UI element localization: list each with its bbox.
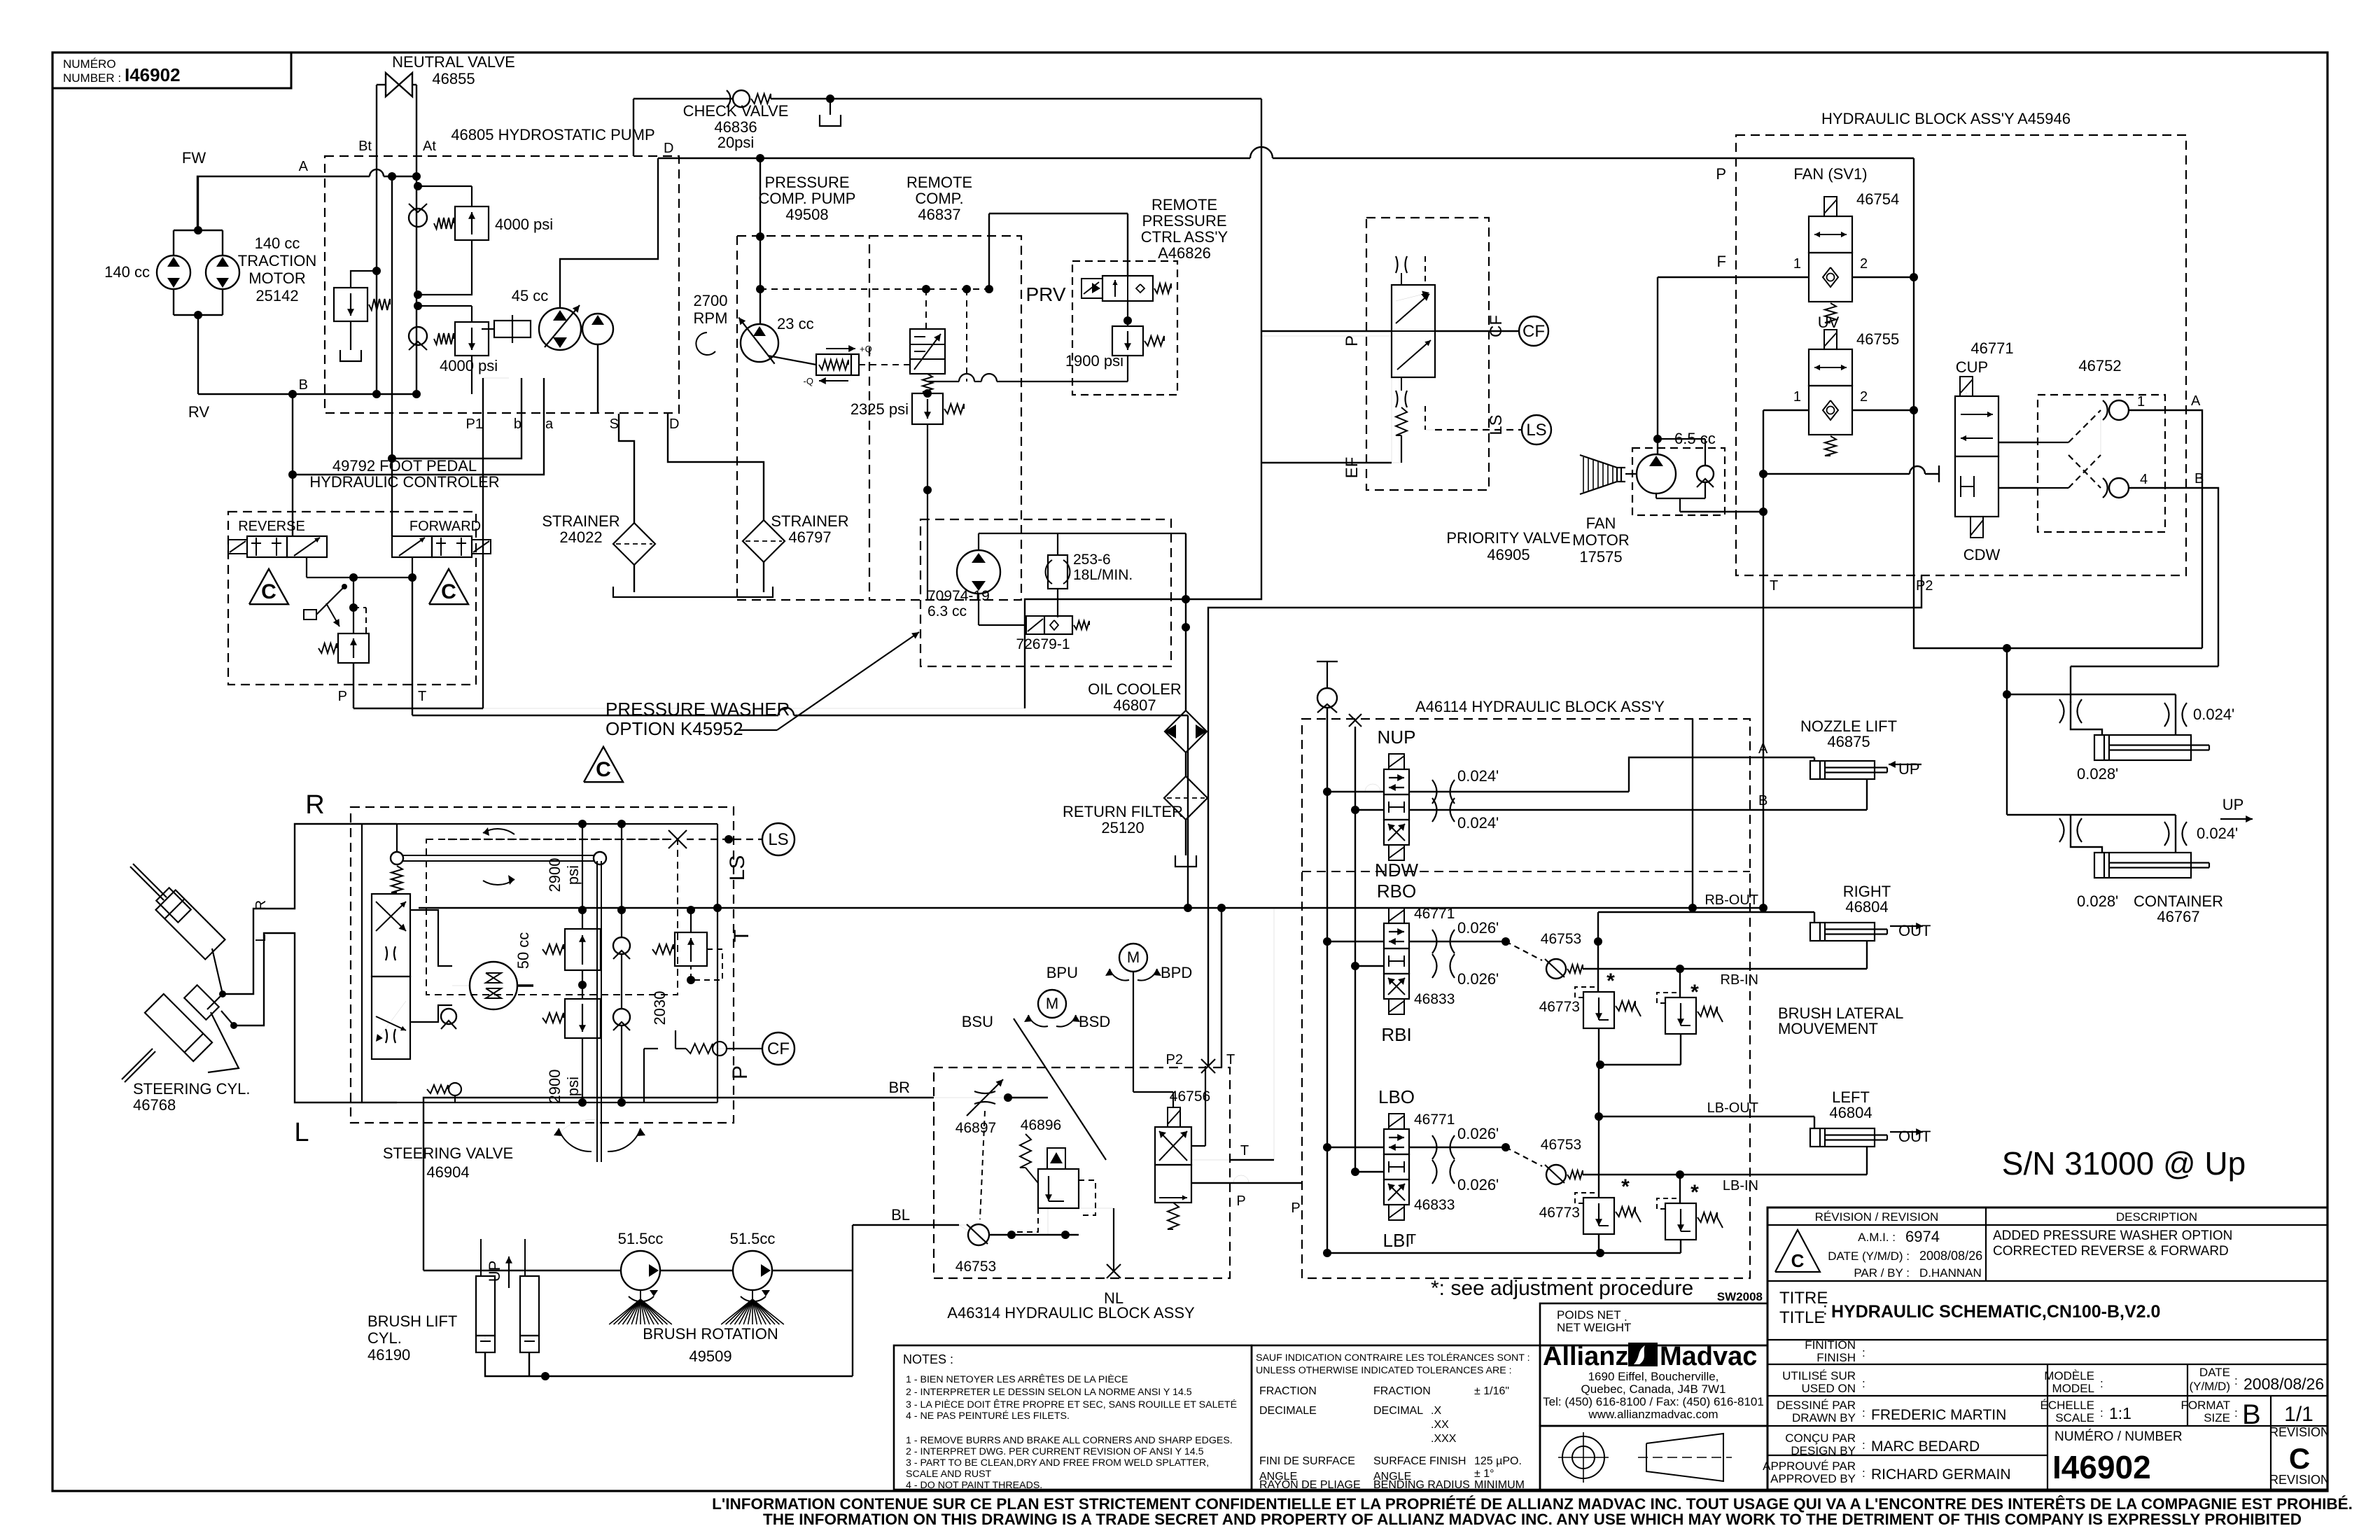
pump drive link <box>581 328 582 330</box>
svg-text:4 - NE PAS PEINTURÉ LES FILETS: 4 - NE PAS PEINTURÉ LES FILETS. <box>906 1410 1070 1422</box>
pedal T wire <box>778 708 794 715</box>
svg-text:2325 psi: 2325 psi <box>850 400 909 418</box>
return filter <box>1185 752 1186 777</box>
priority valve dashed box <box>1366 218 1489 490</box>
svg-text:3 - PART TO BE CLEAN,DRY AND F: 3 - PART TO BE CLEAN,DRY AND FREE FROM W… <box>906 1457 1209 1469</box>
svg-text:46837: 46837 <box>918 206 960 223</box>
steering check valve <box>441 1009 456 1024</box>
svg-text:.XX: .XX <box>1431 1419 1449 1431</box>
NUP orifice B <box>1432 798 1437 822</box>
svg-text:OIL COOLER: OIL COOLER <box>1088 680 1182 698</box>
svg-text:A: A <box>2191 393 2201 409</box>
wire T from A46314 <box>1221 908 1222 1067</box>
wire top supply line <box>633 98 733 99</box>
svg-text:MARC BEDARD: MARC BEDARD <box>1871 1438 1980 1455</box>
svg-text:-Q: -Q <box>804 376 813 386</box>
LS connector steering <box>762 823 794 855</box>
NUP NDW valve <box>1389 754 1404 769</box>
svg-text:*: see adjustment procedure: *: see adjustment procedure <box>1431 1277 1693 1300</box>
svg-text:EF: EF <box>1343 457 1361 479</box>
svg-text:www.allianzmadvac.com: www.allianzmadvac.com <box>1588 1408 1718 1421</box>
foot pedal dashed box <box>228 512 476 685</box>
wire 23cc pump to L2 <box>759 158 761 324</box>
svg-text:*: * <box>1690 981 1699 1004</box>
svg-text:DRAWN BY: DRAWN BY <box>1792 1411 1856 1424</box>
wire P2 down to A46314 <box>1208 575 1921 1067</box>
svg-text:T: T <box>1226 1052 1235 1067</box>
remote comp dashed box <box>869 236 1021 600</box>
svg-text:25142: 25142 <box>255 287 298 304</box>
svg-text:0.026': 0.026' <box>1457 970 1499 988</box>
svg-text:± 1/16": ± 1/16" <box>1474 1385 1509 1397</box>
svg-text:A46314 HYDRAULIC BLOCK ASSY: A46314 HYDRAULIC BLOCK ASSY <box>947 1304 1195 1322</box>
svg-text:MOTOR: MOTOR <box>248 269 305 287</box>
svg-text:0.024': 0.024' <box>1457 814 1499 832</box>
wire b to pedal B <box>392 392 521 458</box>
svg-text:72679-1: 72679-1 <box>1016 636 1070 652</box>
wire P A46314 to A46114 <box>1233 1175 1249 1183</box>
svg-text:0.026': 0.026' <box>1457 1125 1499 1142</box>
svg-text:0.026': 0.026' <box>1457 1176 1499 1193</box>
brush lift cylinder 1 <box>476 1276 495 1336</box>
LBO wire out <box>1409 1147 1506 1148</box>
svg-text:46190: 46190 <box>367 1346 410 1364</box>
orifice 0.028 lower <box>2059 818 2064 842</box>
svg-text:STEERING VALVE: STEERING VALVE <box>383 1144 513 1162</box>
svg-text:S/N 31000 @ Up: S/N 31000 @ Up <box>2002 1145 2246 1182</box>
svg-text:46773: 46773 <box>1539 999 1580 1015</box>
svg-text:OPTION K45952: OPTION K45952 <box>605 718 743 739</box>
svg-text:NUP: NUP <box>1378 727 1416 748</box>
svg-text:T: T <box>418 689 426 704</box>
svg-text:PRESSURE: PRESSURE <box>1142 212 1226 230</box>
svg-text:ADDED PRESSURE WASHER OPTION: ADDED PRESSURE WASHER OPTION <box>1993 1228 2232 1243</box>
svg-text:BPU: BPU <box>1046 964 1078 981</box>
svg-text:RÉVISION / REVISION: RÉVISION / REVISION <box>1815 1210 1939 1224</box>
46897 dashed link <box>980 1111 985 1219</box>
svg-text:46771: 46771 <box>1414 1112 1455 1128</box>
pressure washer dashed box <box>920 519 1171 666</box>
steering column <box>596 861 598 1162</box>
svg-text:HYDRAULIC BLOCK ASS'Y A45946: HYDRAULIC BLOCK ASS'Y A45946 <box>1821 110 2071 127</box>
LS connector circle <box>1522 415 1551 444</box>
svg-text:0.024': 0.024' <box>2197 825 2238 842</box>
wire L2 down to CUP <box>1913 277 1914 575</box>
svg-text:BRUSH ROTATION: BRUSH ROTATION <box>643 1325 778 1343</box>
wire At vertical <box>416 85 417 394</box>
pressure washer wires <box>978 533 979 550</box>
svg-text:46797: 46797 <box>788 528 831 546</box>
svg-text:COMP.: COMP. <box>915 190 963 207</box>
svg-text:± 1°: ± 1° <box>1474 1468 1494 1480</box>
svg-text:STEERING CYL.: STEERING CYL. <box>133 1080 250 1098</box>
svg-text:psi: psi <box>564 865 582 885</box>
company logo box <box>1540 1345 1767 1426</box>
RBO wires left <box>1323 937 1331 946</box>
LBO valve 46771 <box>1389 1114 1404 1129</box>
svg-text:a: a <box>545 416 554 432</box>
A46314 BR dot <box>1004 1093 1012 1102</box>
pressure washer option triangle <box>584 747 623 782</box>
svg-text:S: S <box>610 416 619 432</box>
svg-text:NUMBER :: NUMBER : <box>63 71 121 85</box>
svg-text:UTILISÉ SUR: UTILISÉ SUR <box>1782 1369 1856 1382</box>
traction motor wires <box>173 230 174 255</box>
svg-text:FAN (SV1): FAN (SV1) <box>1793 165 1867 183</box>
revision triangle C <box>1775 1230 1820 1272</box>
svg-text:UV: UV <box>1818 314 1840 331</box>
svg-text:I46902: I46902 <box>2052 1449 2151 1485</box>
fan motor dashed box <box>1632 448 1725 515</box>
charge relief valve with tank <box>372 267 381 275</box>
RB-OUT wire <box>1598 911 1814 913</box>
wire D bottom <box>667 414 668 448</box>
svg-text:46805 HYDROSTATIC PUMP: 46805 HYDROSTATIC PUMP <box>451 126 654 143</box>
svg-text:MODEL: MODEL <box>2052 1382 2094 1395</box>
svg-text:0.028': 0.028' <box>2077 765 2118 783</box>
svg-text:(Y/M/D): (Y/M/D) <box>2189 1380 2230 1393</box>
svg-text:RV: RV <box>188 403 209 421</box>
wire remote comp bottom bus <box>927 490 928 518</box>
svg-text:4 - DO NOT PAINT THREADS.: 4 - DO NOT PAINT THREADS. <box>906 1480 1042 1491</box>
svg-text:MOTOR: MOTOR <box>1572 531 1629 549</box>
container branch wires <box>2006 648 2008 815</box>
svg-text:46771: 46771 <box>1414 906 1455 922</box>
steering cylinder cap 1 <box>156 888 190 922</box>
svg-text:RB-IN: RB-IN <box>1721 972 1758 988</box>
svg-text:46833: 46833 <box>1414 991 1455 1007</box>
RBO orifices <box>1432 930 1437 953</box>
steering spring <box>391 866 402 892</box>
svg-text:FINITION: FINITION <box>1805 1338 1856 1352</box>
svg-text:REMOTE: REMOTE <box>1151 196 1217 213</box>
flow divider 253-6 <box>1048 555 1067 589</box>
wire A46114 P connection <box>1692 719 1693 908</box>
wire F line <box>1658 276 1809 278</box>
svg-text:RB-OUT: RB-OUT <box>1704 892 1758 908</box>
fan symbol <box>1580 455 1617 494</box>
svg-text:RÉVISION: RÉVISION <box>2269 1425 2330 1439</box>
svg-text:FRACTION: FRACTION <box>1373 1385 1431 1397</box>
svg-text:CYL.: CYL. <box>367 1329 402 1347</box>
brush lift cylinder 2 <box>520 1276 539 1336</box>
orifice 0.028 upper <box>2059 699 2064 723</box>
svg-text:CTRL ASS'Y: CTRL ASS'Y <box>1141 228 1228 246</box>
6.5cc pump <box>1637 454 1676 493</box>
svg-text:RBI: RBI <box>1381 1024 1411 1045</box>
svg-text:17575: 17575 <box>1579 548 1622 566</box>
svg-text:P1: P1 <box>466 416 483 432</box>
svg-text:F: F <box>1717 253 1726 270</box>
wire Bt vertical <box>376 85 377 394</box>
svg-text:46767: 46767 <box>2157 908 2199 925</box>
svg-text:23 cc: 23 cc <box>777 315 814 332</box>
relief 46773 LB 2 <box>1665 1203 1696 1240</box>
svg-text:2030: 2030 <box>651 991 668 1025</box>
pressure comp pump dashed box <box>736 236 738 600</box>
NUP orifice A <box>1432 780 1437 804</box>
svg-text:4000 psi: 4000 psi <box>440 357 498 374</box>
svg-text:LS: LS <box>1487 414 1506 435</box>
steering wires R <box>223 824 397 994</box>
wire UV to T port <box>1763 474 1764 575</box>
svg-text:MOUVEMENT: MOUVEMENT <box>1778 1020 1878 1037</box>
svg-text:P: P <box>338 689 347 704</box>
wire a to pedal A <box>293 392 544 475</box>
wire P into priority <box>1261 335 1392 337</box>
svg-text:DESCRIPTION: DESCRIPTION <box>2116 1210 2197 1224</box>
steering bus top <box>397 823 717 825</box>
svg-text:2: 2 <box>1860 389 1868 405</box>
svg-text:1900 psi: 1900 psi <box>1065 352 1123 370</box>
check valve 46753 A46314 <box>968 1224 989 1245</box>
svg-text:1/1: 1/1 <box>2284 1403 2313 1426</box>
svg-text:LB-IN: LB-IN <box>1723 1178 1758 1193</box>
svg-text:46753: 46753 <box>955 1259 996 1275</box>
svg-text:Madvac: Madvac <box>1660 1342 1757 1371</box>
46896 pilot triangle <box>1047 1148 1065 1169</box>
svg-text:APPROUVÉ PAR: APPROUVÉ PAR <box>1763 1459 1856 1473</box>
svg-text:140 cc: 140 cc <box>255 234 300 252</box>
svg-text:DATE (Y/M/D) :: DATE (Y/M/D) : <box>1828 1249 1910 1263</box>
brush rotation motor 1 <box>621 1251 660 1290</box>
pressure washer motor <box>957 550 1000 594</box>
svg-text:HYDRAULIC CONTROLER: HYDRAULIC CONTROLER <box>309 473 499 491</box>
svg-text:NUMÉRO: NUMÉRO <box>63 57 116 71</box>
steering cylinder knuckle <box>208 1012 239 1072</box>
reverse valve <box>247 536 287 557</box>
svg-text:46807: 46807 <box>1113 696 1156 714</box>
check valve 46836 <box>733 90 750 107</box>
svg-text:C: C <box>596 758 611 781</box>
svg-text:46904: 46904 <box>426 1163 469 1181</box>
svg-text:FINI DE SURFACE: FINI DE SURFACE <box>1259 1455 1355 1467</box>
neutral valve 46855 <box>386 73 399 97</box>
46756 valve <box>1168 1107 1180 1127</box>
NUP wire A <box>1409 791 1629 792</box>
priority valve spring <box>1396 407 1407 435</box>
svg-text::: : <box>1862 1438 1865 1452</box>
wire 1900psi down and across <box>1127 356 1128 381</box>
wire EF continue down <box>1261 594 1262 599</box>
svg-text::: : <box>2100 1406 2103 1420</box>
svg-text::: : <box>1862 1406 1865 1420</box>
svg-text:BL: BL <box>891 1206 910 1224</box>
relief valve upper 4000psi <box>418 185 472 187</box>
svg-text:LS: LS <box>1526 421 1546 440</box>
svg-text:46897: 46897 <box>955 1120 996 1136</box>
LB-IN wire <box>1583 1174 1867 1175</box>
svg-text:L: L <box>253 934 269 941</box>
svg-text:BRUSH LIFT: BRUSH LIFT <box>367 1312 457 1330</box>
svg-text:UP: UP <box>1898 760 1920 778</box>
wire BL inside <box>959 1225 967 1230</box>
fan solenoid valve 46754 <box>1824 197 1837 216</box>
svg-text:P: P <box>1236 1193 1245 1209</box>
steering inner dashed <box>426 839 678 995</box>
svg-text:1 - BIEN NETOYER LES ARRÊTES D: 1 - BIEN NETOYER LES ARRÊTES DE LA PIÈCE <box>906 1373 1128 1385</box>
svg-text:25120: 25120 <box>1101 819 1144 836</box>
svg-text:FW: FW <box>182 149 206 167</box>
steering cylinder body 1 <box>156 890 225 960</box>
brush 2 <box>752 1290 753 1299</box>
svg-text:M: M <box>1127 948 1140 966</box>
strainer 46797 <box>743 520 785 562</box>
svg-text:1690 Eiffel, Boucherville,: 1690 Eiffel, Boucherville, <box>1588 1370 1719 1383</box>
A46114 tank top <box>1317 661 1338 662</box>
steering cylinder rod 1 <box>133 864 167 897</box>
variable orifice 46897 <box>974 1091 995 1093</box>
svg-text:P: P <box>729 1065 752 1079</box>
svg-text:2008/08/26: 2008/08/26 <box>1919 1249 1982 1263</box>
svg-text:DESSINÉ PAR: DESSINÉ PAR <box>1777 1399 1856 1412</box>
svg-text:PRV: PRV <box>1025 283 1065 305</box>
svg-text:MINIMUM: MINIMUM <box>1474 1479 1525 1491</box>
NL port <box>1113 1208 1114 1271</box>
triangle C right <box>429 569 468 604</box>
steering bus bottom <box>397 1102 717 1103</box>
steering 2030 relief <box>675 932 707 966</box>
svg-text:FORWARD: FORWARD <box>409 519 481 534</box>
svg-text:A46114 HYDRAULIC BLOCK ASS'Y: A46114 HYDRAULIC BLOCK ASS'Y <box>1415 698 1665 715</box>
svg-text:B: B <box>1758 793 1767 808</box>
hydrostatic pump dashed box <box>325 156 679 413</box>
wire T bus <box>419 907 1763 909</box>
oil cooler wires <box>1185 533 1186 711</box>
svg-text:REMOTE: REMOTE <box>906 174 972 191</box>
projection symbol cone <box>1646 1434 1723 1481</box>
forward valve <box>392 536 432 557</box>
wire UV left down <box>1763 410 1910 474</box>
svg-text:OUT: OUT <box>1898 1128 1931 1145</box>
svg-text:2008/08/26: 2008/08/26 <box>2243 1375 2324 1393</box>
hydraulic block A45946 dashed box <box>1736 135 2186 575</box>
svg-text:C: C <box>441 580 456 603</box>
svg-text:1: 1 <box>1793 256 1801 272</box>
svg-text:NL: NL <box>1104 1289 1123 1307</box>
svg-text:49792 FOOT PEDAL: 49792 FOOT PEDAL <box>332 457 477 475</box>
svg-text:140 cc: 140 cc <box>104 263 150 281</box>
CF connector steering <box>762 1032 794 1065</box>
RB relief verticals <box>1679 969 1681 997</box>
bottom bus <box>1327 1252 1599 1254</box>
svg-text:OUT: OUT <box>1898 922 1931 939</box>
svg-text:M: M <box>1046 995 1058 1012</box>
LB-IN loop <box>1866 1147 1868 1175</box>
svg-text:Bt: Bt <box>358 139 372 154</box>
svg-text:1 - REMOVE BURRS AND BRAKE ALL: 1 - REMOVE BURRS AND BRAKE ALL CORNERS A… <box>906 1435 1233 1446</box>
steering handwheel <box>391 852 403 864</box>
svg-text:MODÈLE: MODÈLE <box>2044 1369 2094 1382</box>
RB-IN loop <box>1866 941 1868 969</box>
svg-text:TRACTION: TRACTION <box>238 252 316 269</box>
svg-text:P2: P2 <box>1916 578 1933 594</box>
RB vertical riser <box>1597 912 1599 992</box>
remote comp valve 46837 <box>910 329 945 374</box>
svg-text:46756: 46756 <box>1170 1088 1210 1105</box>
svg-text:REVISION: REVISION <box>2269 1473 2330 1487</box>
steering cylinder link 1 <box>207 948 223 1009</box>
svg-text:FRACTION: FRACTION <box>1259 1385 1317 1397</box>
cup cdw valve <box>1955 396 1998 456</box>
svg-text:46768: 46768 <box>133 1096 176 1114</box>
orifice 0.024 lower <box>2164 822 2169 846</box>
svg-text:CF: CF <box>1487 315 1506 337</box>
svg-text:49508: 49508 <box>785 206 828 223</box>
svg-text:C: C <box>261 580 276 603</box>
wire EF <box>1261 462 1392 463</box>
svg-text:2900: 2900 <box>546 858 563 892</box>
1900 psi relief <box>1112 326 1143 356</box>
svg-text:+Q: +Q <box>860 344 872 354</box>
45cc variable pump <box>539 308 581 350</box>
svg-text:APPROVED BY: APPROVED BY <box>1770 1472 1856 1485</box>
svg-text:RPM: RPM <box>694 309 728 327</box>
svg-text:FORMAT: FORMAT <box>2180 1399 2230 1412</box>
fan motor link <box>1625 473 1637 475</box>
CF connector circle <box>1519 316 1548 346</box>
svg-text:LB-OUT: LB-OUT <box>1707 1100 1758 1116</box>
wire CF out <box>1435 330 1519 332</box>
strainer 24022 <box>613 523 655 565</box>
A46314 dashed box <box>934 1067 1230 1278</box>
NUP wires left <box>1323 787 1331 796</box>
foot pedal A wire <box>292 394 293 536</box>
svg-text:ÉCHELLE: ÉCHELLE <box>2040 1399 2094 1412</box>
svg-text:DESIGN BY: DESIGN BY <box>1791 1444 1856 1457</box>
svg-text:1: 1 <box>2137 394 2145 409</box>
svg-text:2: 2 <box>1860 256 1868 272</box>
steering gerotor frame <box>410 910 452 966</box>
svg-text:24022: 24022 <box>559 528 602 546</box>
svg-text:46755: 46755 <box>1856 330 1899 348</box>
svg-text:TITLE: TITLE <box>1779 1308 1825 1327</box>
poids net box <box>1540 1303 1767 1345</box>
svg-text::: : <box>2234 1406 2238 1420</box>
svg-text::: : <box>2234 1374 2238 1387</box>
svg-text:46875: 46875 <box>1827 733 1870 750</box>
wire pump discharge D <box>560 158 658 308</box>
svg-text:4000 psi: 4000 psi <box>495 216 553 233</box>
wire B to container <box>2129 488 2218 666</box>
triangle C left <box>249 569 288 604</box>
svg-text:REVERSE: REVERSE <box>238 519 305 534</box>
svg-text:.X: .X <box>1431 1405 1441 1417</box>
left cylinder <box>1810 1128 1875 1147</box>
wire B / RV <box>197 315 199 394</box>
svg-text::: : <box>1862 1346 1865 1359</box>
svg-text:253-6: 253-6 <box>1073 552 1111 568</box>
46752 dashed box <box>2038 395 2165 532</box>
wire LS out <box>1435 429 1522 430</box>
svg-text:B: B <box>299 377 308 393</box>
title block frame <box>1767 1207 2327 1490</box>
svg-text:RETURN FILTER: RETURN FILTER <box>1063 803 1183 820</box>
46756 wires <box>1133 1091 1173 1093</box>
svg-text:CORRECTED REVERSE & FORWARD: CORRECTED REVERSE & FORWARD <box>1993 1244 2229 1259</box>
pedal ports <box>353 663 354 708</box>
container feed wires <box>1914 575 2202 648</box>
svg-text:DATE: DATE <box>2199 1366 2230 1379</box>
svg-text:UP: UP <box>2222 796 2244 813</box>
svg-text:2700: 2700 <box>694 292 728 309</box>
svg-text:BPD: BPD <box>1161 964 1192 981</box>
23cc pump <box>741 324 778 362</box>
svg-text:2 - INTERPRET DWG. PER CURRENT: 2 - INTERPRET DWG. PER CURRENT REVISION … <box>906 1446 1204 1457</box>
RB-IN wire <box>1583 968 1867 969</box>
container cylinder lower wires <box>2007 814 2071 815</box>
check valve 4 <box>2109 478 2129 498</box>
